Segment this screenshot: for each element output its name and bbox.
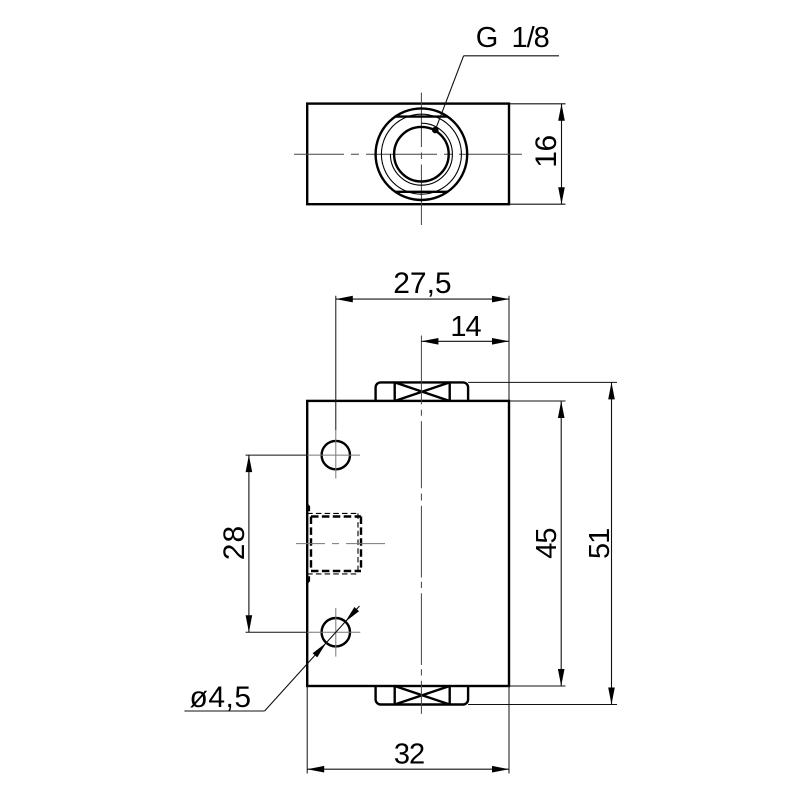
- dim 16 line: [561, 104, 563, 204]
- dim 51 extension top: [468, 381, 617, 383]
- dim 32 arrow left: [307, 766, 324, 773]
- dim 51 extension bottom: [468, 704, 617, 706]
- dim 45 extension top: [509, 400, 566, 402]
- dim 27,5 arrow right: [492, 296, 509, 303]
- dim 45 line: [560, 401, 562, 686]
- dim 32 right extension: [508, 686, 510, 774]
- dim 27,5 right extension: [508, 296, 510, 401]
- svg-text:45: 45: [531, 528, 563, 558]
- dim 16 extension top: [509, 103, 566, 105]
- bottom boss outline: [376, 686, 469, 705]
- bottom hole vertical centerline: [335, 608, 337, 657]
- top boss outline: [376, 382, 469, 401]
- hidden cavity chamfer bracket bottom: [307, 576, 309, 582]
- dim 51 arrow up: [608, 382, 615, 399]
- dim 27,5 arrow left: [336, 296, 353, 303]
- svg-text:27,5: 27,5: [393, 267, 451, 300]
- thin hex inscribed circle: [381, 114, 461, 194]
- outer boss circle: [376, 108, 468, 200]
- top view block outline: [307, 104, 509, 205]
- dim 51 line: [611, 382, 613, 704]
- dim 28 arrow up: [246, 455, 253, 472]
- hidden cavity chamfer bracket top: [307, 506, 309, 512]
- dim 32 arrow right: [492, 766, 509, 773]
- front block outline: [307, 401, 509, 686]
- svg-text:16: 16: [530, 135, 563, 167]
- thread minor circle: [394, 127, 449, 182]
- dim 51 arrow down: [608, 688, 615, 705]
- svg-text:14: 14: [450, 311, 481, 343]
- dia 4,5 arrow upper: [345, 607, 359, 622]
- dim 32 line: [307, 768, 509, 770]
- hidden thread major dashed thin: [307, 513, 358, 574]
- bottom mounting hole: [322, 618, 350, 646]
- leader dot: [432, 127, 439, 134]
- top view vertical centerline: [420, 93, 422, 225]
- top hole vertical centerline: [335, 430, 337, 479]
- dia 4,5 leader line: [265, 606, 360, 711]
- leader underline G 1/8: [464, 55, 559, 57]
- svg-text:32: 32: [394, 738, 424, 770]
- dim 16 extension bottom: [509, 203, 566, 205]
- dim 45 arrow down: [558, 669, 565, 686]
- svg-text:28: 28: [218, 525, 251, 560]
- dim 14 arrow left: [421, 338, 438, 345]
- dim 28 arrow down: [246, 615, 253, 632]
- dim 45 arrow up: [558, 401, 565, 418]
- top hole horizontal centerline: [246, 454, 308, 456]
- top boss inner verticals: [395, 382, 450, 401]
- bottom boss inner verticals: [395, 686, 450, 705]
- dim 16 arrow up: [558, 104, 565, 121]
- dim 27,5 line: [336, 298, 509, 300]
- front vertical centerline: [420, 336, 422, 714]
- bottom hole horizontal centerline: [246, 631, 308, 633]
- thread major arc: [390, 123, 452, 185]
- dim 45 extension bottom: [509, 685, 566, 687]
- bottom boss X cross: [395, 686, 450, 705]
- top boss X cross: [395, 382, 450, 401]
- hidden bore dashed thick: [311, 517, 361, 572]
- dia 4,5 arrow lower: [313, 643, 327, 658]
- dim 14 arrow right: [492, 338, 509, 345]
- dia 4,5 underline: [184, 710, 264, 712]
- hex flat top: [395, 115, 447, 117]
- dim 27,5 left extension: [335, 296, 337, 430]
- dim 28 line: [248, 455, 250, 632]
- dim 16 arrow down: [558, 187, 565, 204]
- cavity centerline: [296, 543, 385, 545]
- dim 32 left extension: [306, 686, 308, 774]
- svg-text:ø4,5: ø4,5: [190, 681, 252, 714]
- top mounting hole: [322, 441, 350, 469]
- svg-text:51: 51: [584, 529, 616, 559]
- top view horizontal centerline: [294, 153, 522, 155]
- dim 14 line: [421, 340, 509, 342]
- svg-text:G 1/8: G 1/8: [476, 22, 549, 54]
- leader line G 1/8: [435, 56, 463, 130]
- hex flat bottom: [395, 191, 447, 193]
